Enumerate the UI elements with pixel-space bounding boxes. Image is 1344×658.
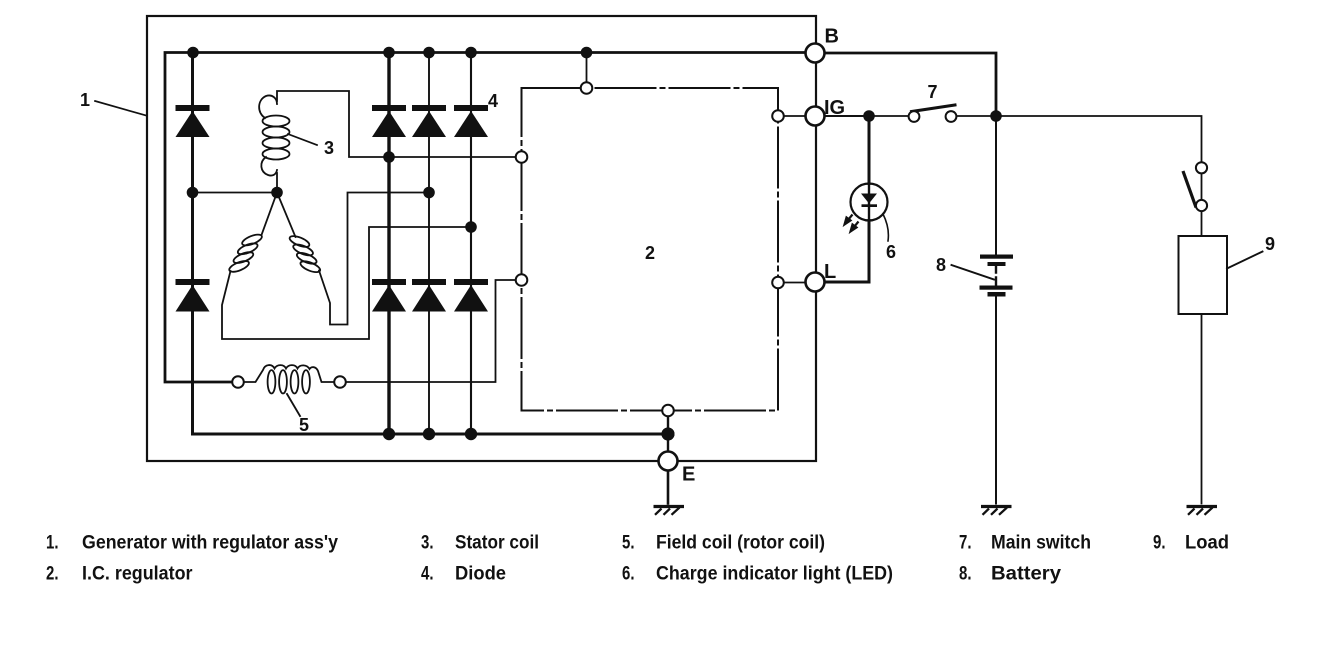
svg-text:IG: IG [824,97,845,119]
svg-text:3.: 3. [421,533,434,554]
svg-text:4.: 4. [421,564,434,585]
svg-text:Field coil (rotor coil): Field coil (rotor coil) [656,533,825,554]
svg-text:3: 3 [324,138,334,158]
svg-text:Stator coil: Stator coil [455,533,539,554]
svg-text:2.: 2. [46,564,59,585]
svg-text:2: 2 [645,243,655,263]
svg-text:8: 8 [936,255,946,275]
svg-text:Battery: Battery [991,564,1061,585]
svg-text:4: 4 [488,91,498,111]
svg-text:5.: 5. [622,533,635,554]
svg-text:E: E [682,464,695,486]
svg-text:7: 7 [928,82,938,102]
svg-text:I.C. regulator: I.C. regulator [82,564,193,585]
svg-text:L: L [824,261,836,283]
svg-text:1.: 1. [46,533,59,554]
svg-text:8.: 8. [959,564,972,585]
svg-text:9.: 9. [1153,533,1166,554]
svg-text:9: 9 [1265,234,1275,254]
svg-text:1: 1 [80,90,90,110]
svg-text:6: 6 [886,242,896,262]
svg-text:B: B [825,26,839,48]
svg-text:7.: 7. [959,533,972,554]
svg-text:Diode: Diode [455,564,506,585]
svg-text:Load: Load [1185,533,1229,554]
svg-text:Main switch: Main switch [991,533,1091,554]
svg-text:6.: 6. [622,564,635,585]
svg-text:Charge indicator light (LED): Charge indicator light (LED) [656,564,893,585]
svg-text:5: 5 [299,415,309,435]
svg-text:Generator with regulator ass'y: Generator with regulator ass'y [82,533,338,554]
